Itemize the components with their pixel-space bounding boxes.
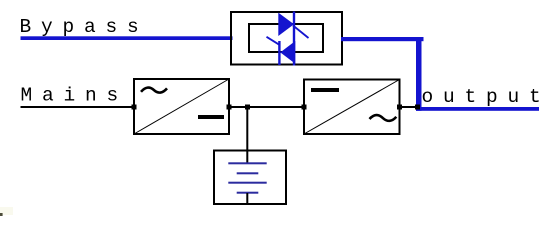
thyristor SCR1 (top, pointing right) (278, 13, 294, 36)
battery B1 plate 3 (long) (228, 182, 266, 184)
thyristor SCR2 cathode bar (278, 41, 280, 65)
rectifier U1 dc symbol (198, 115, 224, 119)
thyristor SCR1 gate (293, 26, 309, 39)
rectifier U1 output terminal (227, 105, 232, 110)
junction output (415, 105, 420, 110)
wire SCR bus (blue vertical through switch) (293, 12, 295, 66)
svg-text:Mains: Mains (21, 85, 129, 107)
wire bypass input (blue) (21, 36, 233, 40)
junction battery tap (245, 105, 250, 110)
wire switch to corner (blue) (341, 37, 424, 41)
inverter U2 diagonal (304, 80, 400, 135)
inverter U2 box (304, 80, 400, 135)
inverter U2 ac symbol (370, 115, 397, 121)
battery B1 plate 2 (short) (237, 172, 259, 174)
inverter U2 input terminal (302, 105, 307, 110)
rectifier U1 ac symbol (141, 88, 167, 93)
svg-text:output: output (422, 86, 551, 108)
svg-text:Bypass: Bypass (20, 16, 149, 38)
wire output (blue) (416, 107, 539, 111)
battery B1 plate 4 (short) (237, 192, 259, 194)
wire corner down (blue vertical) (416, 37, 422, 111)
wire inverter to output (400, 106, 418, 108)
thyristor SCR2 gate (267, 37, 281, 45)
rectifier U1 input terminal (132, 105, 137, 110)
wire battery bottom stub (246, 193, 248, 204)
smudge artifact bottom-left (faint) (0, 207, 13, 215)
rectifier U1 box (134, 79, 229, 134)
wire mains input (21, 106, 135, 108)
thyristor SCR2 (bottom, pointing left) (280, 41, 295, 64)
static switch S1 outer box (231, 12, 342, 65)
battery B1 plate 1 (long) (228, 162, 266, 164)
wire battery drop (246, 107, 248, 163)
inverter U2 output terminal (397, 105, 402, 110)
rectifier U1 diagonal (134, 79, 229, 134)
wire rectifier to inverter (229, 106, 304, 108)
battery B1 box (214, 151, 286, 205)
speck artifact bottom-left corner (0, 213, 3, 216)
static switch S1 inner box (249, 24, 323, 52)
inverter U2 dc symbol (311, 88, 339, 92)
